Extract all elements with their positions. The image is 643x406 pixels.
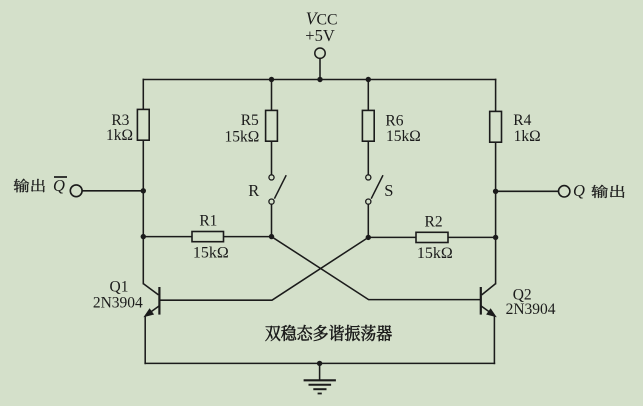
junction R1 / Q1 collector bbox=[141, 234, 146, 239]
junction node S bbox=[366, 235, 371, 240]
svg-text:+5V: +5V bbox=[305, 26, 335, 45]
label 输出 (output, right) bbox=[591, 185, 607, 198]
wire VCC stem bbox=[319, 59, 321, 80]
junction Q-bar output node bbox=[141, 188, 146, 193]
transistor Q1 bbox=[143, 284, 159, 317]
wire R6 top lead bbox=[367, 80, 369, 111]
junction top rail / VCC bbox=[317, 77, 322, 82]
wire Q output lead bbox=[496, 190, 559, 192]
junction top rail / R6 bbox=[366, 77, 371, 82]
output terminal Q bbox=[559, 186, 570, 197]
wire Q2 emitter down bbox=[493, 317, 495, 364]
svg-text:R5: R5 bbox=[241, 112, 259, 129]
junction top rail / R5 bbox=[269, 77, 274, 82]
resistor R6 bbox=[362, 110, 374, 141]
svg-text:Q1: Q1 bbox=[110, 278, 129, 295]
resistor R5 bbox=[266, 110, 278, 141]
wire node S to R2 left lead bbox=[368, 236, 416, 238]
svg-text:2N3904: 2N3904 bbox=[506, 301, 556, 318]
wire R4 bottom / Q2 collector column bbox=[495, 142, 497, 283]
wire R3 top lead bbox=[142, 80, 144, 110]
svg-text:1kΩ: 1kΩ bbox=[106, 127, 133, 144]
wire switch R to node R bbox=[271, 204, 273, 236]
wire R6 to switch S bbox=[367, 141, 369, 175]
svg-text:R2: R2 bbox=[425, 214, 443, 231]
svg-text:R4: R4 bbox=[513, 112, 531, 129]
svg-text:R: R bbox=[248, 181, 259, 200]
transistor Q2 bbox=[481, 284, 496, 317]
wire R3 bottom / Q1 collector column bbox=[142, 140, 144, 283]
svg-text:Q: Q bbox=[53, 176, 65, 195]
wire top power rail bbox=[143, 79, 495, 81]
wire R2 right lead bbox=[448, 236, 496, 238]
svg-text:S: S bbox=[384, 181, 393, 200]
switch R bbox=[269, 175, 286, 204]
wire R1 left lead bbox=[143, 236, 192, 238]
svg-text:R1: R1 bbox=[199, 213, 217, 230]
svg-text:2N3904: 2N3904 bbox=[93, 295, 143, 312]
resistor R3 bbox=[137, 109, 149, 140]
ground bbox=[304, 380, 336, 393]
wire R5 to switch R bbox=[271, 141, 273, 175]
wire Q1 base to node S (cross-coupling) bbox=[160, 237, 368, 300]
resistor R2 bbox=[416, 232, 448, 242]
junction Q output node bbox=[493, 189, 498, 194]
svg-text:15kΩ: 15kΩ bbox=[193, 245, 229, 262]
resistor R1 bbox=[192, 232, 224, 242]
wire Q1 emitter down bbox=[144, 317, 146, 364]
label 双稳态多谐振荡器 (bistable multivibrator) bbox=[265, 326, 280, 341]
junction R2 / Q2 collector bbox=[493, 235, 498, 240]
wire bottom emitter rail bbox=[145, 362, 494, 364]
switch S bbox=[366, 175, 383, 204]
wire switch S to node S bbox=[367, 204, 369, 237]
wire ground stem bbox=[319, 363, 321, 379]
junction ground node bbox=[317, 361, 322, 366]
label 输出 (output, left) bbox=[14, 179, 29, 193]
VCC terminal bbox=[315, 48, 325, 58]
svg-text:Q: Q bbox=[573, 181, 585, 200]
wire R1 right lead to node R bbox=[224, 236, 272, 238]
wire R4 top lead bbox=[495, 80, 497, 112]
resistor R4 bbox=[490, 111, 502, 142]
output terminal Q-bar bbox=[70, 185, 82, 197]
wire R5 top lead bbox=[271, 80, 273, 111]
wire node R to Q2 base (cross-coupling) bbox=[272, 237, 480, 300]
svg-text:15kΩ: 15kΩ bbox=[386, 128, 421, 145]
svg-text:1kΩ: 1kΩ bbox=[514, 128, 541, 145]
wire Q-bar output lead bbox=[82, 190, 143, 192]
svg-text:15kΩ: 15kΩ bbox=[417, 245, 453, 262]
junction node R bbox=[269, 234, 274, 239]
svg-text:15kΩ: 15kΩ bbox=[225, 128, 260, 145]
